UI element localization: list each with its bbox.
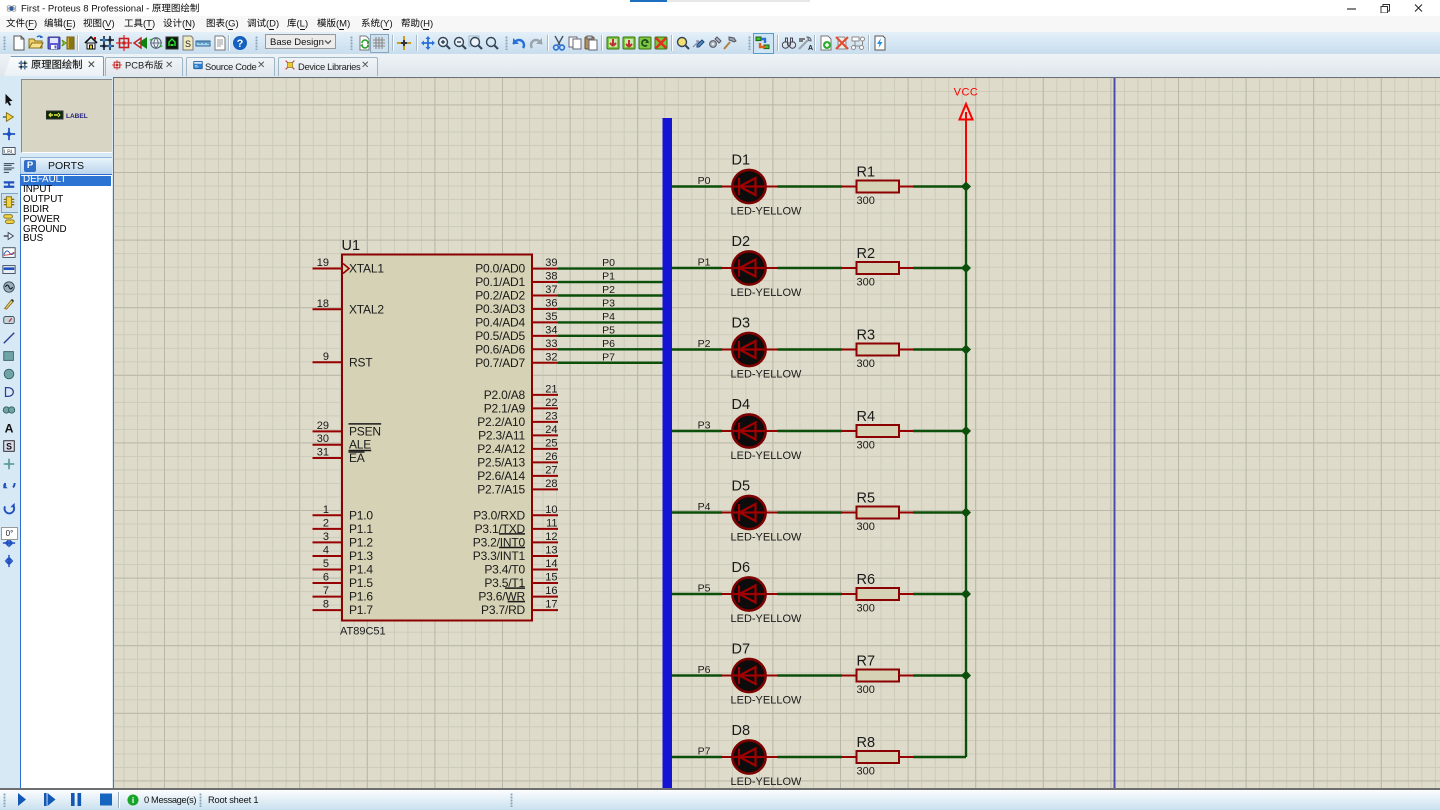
- svg-text:LED-YELLOW: LED-YELLOW: [731, 695, 803, 707]
- svg-text:RST: RST: [349, 355, 373, 369]
- svg-text:P0.2/AD2: P0.2/AD2: [475, 289, 525, 303]
- svg-text:P2.3/A11: P2.3/A11: [478, 428, 525, 442]
- svg-text:300: 300: [857, 766, 875, 778]
- svg-text:P6: P6: [698, 664, 711, 676]
- svg-text:300: 300: [857, 521, 875, 533]
- svg-text:P2: P2: [602, 284, 615, 296]
- svg-text:P3.3/INT1: P3.3/INT1: [473, 549, 526, 563]
- svg-text:D2: D2: [732, 234, 751, 250]
- svg-text:LED-YELLOW: LED-YELLOW: [731, 369, 803, 381]
- svg-text:U1: U1: [342, 238, 361, 254]
- svg-text:(D): (D): [266, 18, 279, 29]
- svg-text:300: 300: [857, 684, 875, 696]
- svg-text:R5: R5: [857, 491, 876, 507]
- svg-text:39: 39: [545, 257, 557, 269]
- svg-text:19: 19: [317, 257, 329, 269]
- svg-text:22: 22: [545, 397, 557, 409]
- svg-text:P0.6/AD6: P0.6/AD6: [475, 342, 525, 356]
- svg-text:P3.7/RD: P3.7/RD: [481, 603, 525, 617]
- svg-text:8: 8: [323, 599, 329, 611]
- svg-text:P0.0/AD0: P0.0/AD0: [475, 262, 525, 276]
- svg-text:(T): (T): [143, 18, 155, 29]
- svg-text:R4: R4: [857, 409, 876, 425]
- svg-text:R7: R7: [857, 654, 876, 670]
- svg-text:PSEN: PSEN: [349, 424, 381, 438]
- svg-text:P0.3/AD3: P0.3/AD3: [475, 302, 525, 316]
- svg-text:P2.6/A14: P2.6/A14: [477, 469, 525, 483]
- svg-text:D7: D7: [732, 642, 751, 658]
- svg-text:12: 12: [545, 531, 557, 543]
- svg-text:33: 33: [545, 338, 557, 350]
- svg-text:LBL: LBL: [4, 150, 14, 156]
- svg-text:P3.0/RXD: P3.0/RXD: [473, 508, 525, 522]
- svg-text:LED-YELLOW: LED-YELLOW: [731, 532, 803, 544]
- svg-text:P2.0/A8: P2.0/A8: [484, 388, 526, 402]
- svg-text:PCB: PCB: [125, 60, 144, 70]
- svg-text:24: 24: [545, 424, 557, 436]
- svg-text:LED-YELLOW: LED-YELLOW: [731, 287, 803, 299]
- svg-text:300: 300: [857, 603, 875, 615]
- svg-text:D6: D6: [732, 560, 751, 576]
- svg-text:14: 14: [545, 558, 557, 570]
- svg-text:D4: D4: [732, 397, 751, 413]
- svg-text:P0.1/AD1: P0.1/AD1: [475, 275, 525, 289]
- svg-text:2: 2: [323, 517, 329, 529]
- svg-text:300: 300: [857, 440, 875, 452]
- svg-text:10: 10: [545, 504, 557, 516]
- svg-text:P4: P4: [602, 311, 615, 323]
- svg-text:P7: P7: [602, 351, 615, 363]
- svg-text:35: 35: [545, 311, 557, 323]
- svg-text:(M): (M): [336, 18, 350, 29]
- svg-text:6: 6: [323, 572, 329, 584]
- svg-text:S: S: [6, 442, 12, 452]
- svg-text:P1.4: P1.4: [349, 563, 373, 577]
- svg-text:4: 4: [323, 544, 329, 556]
- svg-text:300: 300: [857, 358, 875, 370]
- svg-text:P1: P1: [698, 257, 711, 269]
- svg-text:34: 34: [545, 324, 557, 336]
- svg-text:D5: D5: [732, 479, 751, 495]
- svg-text:29: 29: [317, 420, 329, 432]
- svg-text:300: 300: [857, 195, 875, 207]
- svg-text:A: A: [808, 45, 813, 51]
- svg-text:(N): (N): [182, 18, 195, 29]
- svg-text:P2.7/A15: P2.7/A15: [477, 482, 525, 496]
- svg-text:17: 17: [545, 599, 557, 611]
- svg-text:13: 13: [545, 544, 557, 556]
- svg-text:(H): (H): [420, 18, 433, 29]
- svg-text:27: 27: [545, 464, 557, 476]
- svg-text:1: 1: [323, 504, 329, 516]
- svg-text:LED-YELLOW: LED-YELLOW: [731, 613, 803, 625]
- svg-text:31: 31: [317, 447, 329, 459]
- svg-text:3: 3: [323, 531, 329, 543]
- svg-text:28: 28: [545, 478, 557, 490]
- svg-text:P3: P3: [602, 297, 615, 309]
- svg-text:ALE: ALE: [349, 438, 371, 452]
- svg-text:First - Proteus 8 Professional: First - Proteus 8 Professional -: [21, 3, 149, 14]
- svg-text:(E): (E): [63, 18, 76, 29]
- svg-text:P1.3: P1.3: [349, 549, 373, 563]
- svg-text:18: 18: [317, 298, 329, 310]
- svg-text:P1.2: P1.2: [349, 535, 373, 549]
- svg-text:R8: R8: [857, 735, 876, 751]
- svg-text:LED-YELLOW: LED-YELLOW: [731, 776, 803, 788]
- svg-text:R3: R3: [857, 328, 876, 344]
- svg-text:P3: P3: [698, 420, 711, 432]
- svg-text:LED-YELLOW: LED-YELLOW: [731, 450, 803, 462]
- svg-text:9: 9: [323, 351, 329, 363]
- svg-text:P2.2/A10: P2.2/A10: [477, 415, 525, 429]
- svg-text:R6: R6: [857, 572, 876, 588]
- svg-text:P7: P7: [698, 746, 711, 758]
- svg-text:37: 37: [545, 284, 557, 296]
- svg-text:30: 30: [317, 433, 329, 445]
- svg-text:XTAL1: XTAL1: [349, 262, 384, 276]
- svg-text:38: 38: [545, 271, 557, 283]
- svg-text:P1.0: P1.0: [349, 508, 373, 522]
- svg-text:P2.1/A9: P2.1/A9: [484, 401, 526, 415]
- svg-text:P1.1: P1.1: [349, 522, 373, 536]
- svg-text:P1: P1: [602, 271, 615, 283]
- svg-text:P2.4/A12: P2.4/A12: [477, 442, 525, 456]
- svg-text:LABEL: LABEL: [66, 113, 88, 120]
- svg-text:(G): (G): [225, 18, 239, 29]
- svg-text:P0.7/AD7: P0.7/AD7: [475, 356, 525, 370]
- svg-text:XTAL2: XTAL2: [349, 302, 384, 316]
- svg-text:P1.5: P1.5: [349, 576, 373, 590]
- svg-text:(Y): (Y): [380, 18, 393, 29]
- svg-text:16: 16: [545, 585, 557, 597]
- svg-text:S: S: [185, 39, 191, 49]
- svg-text:P2.5/A13: P2.5/A13: [477, 455, 525, 469]
- svg-text:P5: P5: [602, 324, 615, 336]
- svg-text:300: 300: [857, 277, 875, 289]
- svg-text:i: i: [132, 795, 134, 805]
- svg-text:5: 5: [323, 558, 329, 570]
- svg-text:VCC: VCC: [954, 87, 979, 99]
- svg-text:P0: P0: [698, 175, 711, 187]
- svg-text:P0: P0: [602, 257, 615, 269]
- svg-text:7: 7: [323, 585, 329, 597]
- svg-text:P6: P6: [602, 338, 615, 350]
- svg-text:A: A: [5, 421, 14, 435]
- svg-text:15: 15: [545, 572, 557, 584]
- svg-text:EA: EA: [349, 451, 365, 465]
- svg-text:D8: D8: [732, 723, 751, 739]
- svg-text:R2: R2: [857, 246, 876, 262]
- svg-text:LED-YELLOW: LED-YELLOW: [731, 206, 803, 218]
- svg-text:AT89C51: AT89C51: [340, 626, 386, 638]
- svg-text:32: 32: [545, 351, 557, 363]
- svg-text:21: 21: [545, 383, 557, 395]
- svg-text:P3.4/T0: P3.4/T0: [484, 563, 525, 577]
- svg-text:D1: D1: [732, 153, 751, 169]
- svg-text:P0.4/AD4: P0.4/AD4: [475, 315, 525, 329]
- svg-text:23: 23: [545, 410, 557, 422]
- svg-text:11: 11: [546, 517, 557, 529]
- svg-text:25: 25: [545, 437, 557, 449]
- svg-text:P5: P5: [698, 583, 711, 595]
- svg-text:(V): (V): [102, 18, 115, 29]
- svg-text:P4: P4: [698, 501, 711, 513]
- svg-text:R1: R1: [857, 165, 876, 181]
- svg-text:26: 26: [545, 451, 557, 463]
- svg-text:P1.6: P1.6: [349, 590, 373, 604]
- svg-text:D3: D3: [732, 316, 751, 332]
- svg-text:P0.5/AD5: P0.5/AD5: [475, 329, 525, 343]
- svg-text:(L): (L): [297, 18, 309, 29]
- svg-text:P1.7: P1.7: [349, 603, 373, 617]
- svg-text:36: 36: [545, 297, 557, 309]
- svg-text:(F): (F): [25, 18, 37, 29]
- svg-text:?: ?: [237, 38, 244, 50]
- svg-text:P2: P2: [698, 338, 711, 350]
